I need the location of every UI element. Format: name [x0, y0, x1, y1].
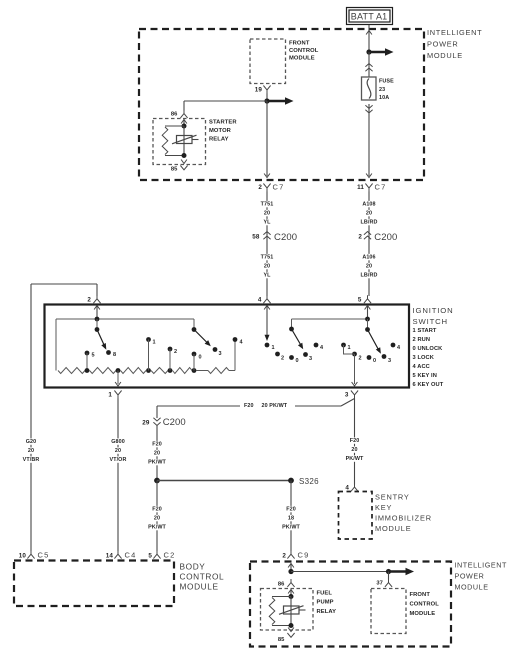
- svg-text:C4: C4: [125, 551, 137, 560]
- svg-text:4 ACC: 4 ACC: [413, 364, 430, 370]
- terminal 2 wafer 4: [352, 352, 362, 362]
- resistor rail segment c: [121, 368, 147, 374]
- arrowhead inside relay pin 86: [181, 120, 187, 124]
- svg-text:3: 3: [309, 356, 312, 362]
- svg-text:11: 11: [357, 184, 364, 191]
- svg-text:LB/RD: LB/RD: [361, 273, 378, 279]
- module box: FRONT CONTROL MODULE (top): [250, 39, 286, 84]
- svg-text:2: 2: [174, 349, 177, 355]
- module box: INTELLIGENT POWER MODULE (bottom): [250, 562, 451, 647]
- svg-text:3 LOCK: 3 LOCK: [413, 355, 435, 361]
- svg-text:RELAY: RELAY: [209, 136, 229, 142]
- svg-text:F20: F20: [244, 403, 254, 409]
- label G20 20 VT/BR: [22, 438, 41, 463]
- battery feed box BATT A1: [347, 8, 393, 25]
- svg-text:20: 20: [264, 211, 270, 217]
- node: fuse feed junction: [366, 49, 371, 54]
- node rail exit pin 1: [116, 368, 121, 373]
- svg-text:PK/WT: PK/WT: [148, 460, 166, 466]
- connector pin 19 of front control module: [255, 86, 271, 94]
- connector C2 pin 5: [148, 551, 175, 560]
- svg-text:1: 1: [348, 345, 351, 351]
- splice S326: [288, 477, 319, 486]
- node: relay coil top: [182, 124, 187, 129]
- svg-text:A108: A108: [362, 202, 375, 208]
- connector C7 pin 11: [357, 183, 386, 192]
- svg-text:37: 37: [376, 581, 383, 587]
- svg-text:0: 0: [373, 358, 376, 364]
- arrowhead into IPM boundary: [366, 31, 372, 35]
- terminal 0 wafer 3: [289, 355, 299, 364]
- label 37 front control module pin: [376, 581, 383, 587]
- svg-text:F20: F20: [152, 507, 162, 513]
- wire branch to front control module pin 37: [388, 572, 390, 580]
- svg-text:KEY: KEY: [375, 503, 392, 512]
- wire splice run to S326: [157, 480, 291, 482]
- svg-text:C5: C5: [38, 551, 50, 560]
- node rail at terminal 5: [85, 368, 90, 373]
- svg-text:6 KEY OUT: 6 KEY OUT: [413, 382, 444, 388]
- svg-text:4: 4: [345, 485, 349, 492]
- switch wafer 1 pivot: [95, 319, 100, 332]
- wire junction to C7 pin 2: [266, 101, 268, 176]
- svg-text:20: 20: [115, 448, 121, 454]
- label IGNITION SWITCH: [413, 306, 454, 326]
- wire A108 segment: [368, 192, 370, 297]
- svg-text:T751: T751: [261, 255, 274, 261]
- bold arrow right (bottom IPM): [389, 568, 415, 575]
- label A108 20 LB/RD (upper): [360, 201, 379, 226]
- svg-text:29: 29: [142, 420, 150, 427]
- switch wafer 1 arm: [97, 330, 106, 350]
- label 85 starter relay pin: [171, 167, 178, 173]
- svg-text:CONTROL: CONTROL: [289, 48, 319, 54]
- svg-text:MODULE: MODULE: [289, 55, 315, 61]
- svg-text:C7: C7: [375, 183, 387, 192]
- node: fuel pump relay coil bottom: [289, 623, 294, 628]
- module box: BODY CONTROL MODULE: [14, 561, 174, 607]
- terminal 5 wafer 1: [85, 351, 95, 371]
- wire F20 horizontal run: [157, 406, 341, 418]
- connector ignition switch pin 4: [258, 295, 271, 303]
- arrowhead at IPM boundary pin 11: [366, 174, 372, 178]
- svg-text:20: 20: [264, 264, 270, 270]
- connector fork pin 85 (below relay): [180, 166, 187, 170]
- arrowhead switch exit pin 1: [115, 382, 121, 386]
- connector fork front control module pin 37: [385, 579, 392, 587]
- module box: FRONT CONTROL MODULE (bottom): [371, 589, 406, 634]
- wire pin 3 branch diagonal: [341, 399, 355, 407]
- connector C200 pin 58: [252, 232, 297, 244]
- svg-text:F20: F20: [152, 442, 162, 448]
- label T751 20 YL (lower): [259, 254, 274, 279]
- starter relay box dashed: [153, 119, 206, 165]
- svg-text:5: 5: [92, 353, 95, 359]
- arrowhead inside switch pin 5: [365, 306, 371, 310]
- label F20 20 PK/WT (upper left): [148, 441, 167, 466]
- node rail at terminal 1: [146, 368, 151, 373]
- arrowhead inside IPM pin 2 C9: [288, 564, 294, 568]
- switch inner top rail: [56, 319, 194, 371]
- svg-text:FRONT: FRONT: [289, 40, 310, 46]
- connector C7 pin 2: [258, 183, 284, 192]
- wire F20 18 segment to C9: [290, 481, 292, 552]
- switch wafer 4 arm: [368, 330, 381, 354]
- svg-text:8: 8: [113, 352, 116, 358]
- arrowhead at IPM boundary pin 2: [264, 174, 270, 178]
- svg-text:1: 1: [108, 392, 112, 399]
- connector chevrons above fuse: [365, 64, 372, 72]
- bold arrow right from pin 19 junction: [267, 97, 294, 104]
- label FRONT CONTROL MODULE (bottom): [410, 592, 440, 617]
- svg-text:86: 86: [278, 582, 285, 588]
- svg-text:20 PK/WT: 20 PK/WT: [262, 403, 288, 409]
- node: F20 junction: [154, 478, 160, 484]
- terminal 1 wafer 4: [341, 343, 351, 351]
- svg-text:2: 2: [282, 552, 286, 559]
- svg-text:2: 2: [358, 233, 362, 240]
- wire pin 4 to terminal 1 wafer 3: [265, 306, 270, 342]
- svg-text:POWER: POWER: [427, 40, 458, 49]
- svg-text:FRONT: FRONT: [410, 592, 431, 598]
- svg-text:3: 3: [388, 358, 391, 364]
- wire pin 3 to sentry key module: [354, 399, 356, 485]
- svg-text:5: 5: [148, 552, 152, 559]
- wire F20 upper segment: [156, 426, 158, 481]
- wire into relay coil top: [183, 120, 185, 127]
- wire fuse to C7 pin 11: [368, 104, 370, 176]
- ignition switch position list: [413, 328, 444, 388]
- connector C9 pin 2: [282, 551, 309, 560]
- terminal 8 wafer 1: [106, 350, 116, 358]
- arrowhead relay pin 85: [181, 160, 187, 164]
- svg-text:2: 2: [87, 297, 91, 304]
- svg-text:A106: A106: [362, 255, 375, 261]
- wire junction to starter relay: [184, 101, 267, 111]
- svg-text:86: 86: [171, 112, 178, 118]
- svg-text:CONTROL: CONTROL: [410, 602, 440, 608]
- connector C4 pin 14: [106, 551, 137, 560]
- wire F20 lower segment to C2: [156, 481, 158, 552]
- connector fork fuel pump relay pin 86: [287, 579, 294, 587]
- svg-text:STARTER: STARTER: [209, 120, 237, 126]
- node rail at terminal 2: [168, 368, 173, 373]
- connector fork fuel pump relay pin 85 (below): [287, 633, 294, 637]
- svg-text:G20: G20: [26, 439, 37, 445]
- arrowhead switch exit pin 3: [352, 382, 358, 386]
- label FUEL PUMP RELAY: [317, 591, 337, 615]
- connector C5 pin 10: [19, 551, 50, 560]
- svg-text:SENTRY: SENTRY: [375, 493, 410, 502]
- svg-text:2: 2: [258, 184, 262, 191]
- svg-text:FUSE: FUSE: [379, 79, 394, 85]
- label G800 20 VT/OR: [109, 438, 128, 463]
- switch wafer 3 pivot rail: [289, 319, 367, 331]
- node: fuel pump relay feed junction: [288, 569, 293, 574]
- ignition switch box: [45, 305, 410, 388]
- node: pin2 rail junction: [95, 317, 100, 322]
- svg-text:MODULE: MODULE: [455, 583, 489, 592]
- arrowhead fuel pump relay pin 85: [288, 628, 294, 632]
- svg-text:FUEL: FUEL: [317, 591, 333, 597]
- terminal 0 wafer 4: [367, 355, 377, 364]
- svg-text:0: 0: [199, 355, 202, 361]
- wire switch exit pin 1: [117, 371, 119, 385]
- terminal 1 wafer 3: [265, 343, 275, 351]
- svg-text:18: 18: [288, 516, 294, 522]
- terminal 4 wafer 2: [233, 337, 244, 345]
- label FRONT CONTROL MODULE (top): [289, 40, 319, 61]
- svg-text:C9: C9: [298, 551, 310, 560]
- resistor rail segment e: [173, 368, 193, 374]
- wire pin 5 into switch: [367, 306, 369, 320]
- arrowhead inside switch pin 2: [94, 306, 100, 310]
- svg-text:1: 1: [272, 345, 275, 351]
- resistor rail segment f: [196, 340, 235, 374]
- svg-text:CONTROL: CONTROL: [180, 572, 225, 582]
- svg-text:F20: F20: [350, 438, 360, 444]
- svg-text:LB/RD: LB/RD: [361, 220, 378, 226]
- bold arrow right from fuse feed node: [369, 48, 394, 55]
- label STARTER MOTOR RELAY: [209, 120, 237, 143]
- svg-text:85: 85: [171, 167, 178, 173]
- wire G20 loop from ignition switch pin 2: [31, 284, 97, 551]
- connector ignition switch pin 2: [87, 295, 100, 303]
- svg-text:F20: F20: [286, 507, 296, 513]
- terminal 3 wafer 3: [303, 352, 312, 362]
- svg-text:3: 3: [345, 392, 349, 399]
- svg-text:MODULE: MODULE: [375, 524, 411, 533]
- svg-text:MODULE: MODULE: [410, 611, 436, 617]
- wire pin 19 to junction: [266, 94, 268, 102]
- svg-text:IGNITION: IGNITION: [413, 306, 454, 315]
- svg-text:20: 20: [351, 447, 357, 453]
- fuel pump relay coil (left zigzag): [269, 597, 291, 626]
- terminal 1 wafer 2: [146, 337, 156, 370]
- terminal 3 wafer 2: [213, 347, 222, 357]
- label INTELLIGENT POWER MODULE (top): [427, 28, 482, 60]
- terminal 0 wafer 2: [192, 352, 202, 371]
- label 86 starter relay pin: [171, 112, 178, 118]
- switch wafer 2 pivot: [192, 319, 197, 332]
- svg-text:MODULE: MODULE: [180, 582, 219, 592]
- svg-text:3: 3: [219, 351, 222, 357]
- svg-text:10A: 10A: [379, 95, 389, 101]
- svg-text:PK/WT: PK/WT: [282, 525, 300, 531]
- svg-text:INTELLIGENT: INTELLIGENT: [427, 28, 482, 37]
- svg-text:85: 85: [278, 637, 285, 643]
- svg-text:10: 10: [19, 552, 27, 559]
- svg-text:T751: T751: [261, 202, 274, 208]
- arrowhead inside fuel pump relay pin 86: [288, 590, 294, 594]
- connector chevrons below fuse: [365, 105, 372, 113]
- label INTELLIGENT POWER MODULE (bottom): [455, 561, 507, 592]
- wire G800 from switch pin 1 to C4: [117, 399, 119, 552]
- svg-text:YL: YL: [263, 220, 271, 226]
- svg-text:2: 2: [359, 356, 362, 362]
- label BODY CONTROL MODULE: [180, 562, 225, 592]
- svg-text:BATT A1: BATT A1: [351, 12, 388, 22]
- connector ignition switch pin 1 (bottom): [108, 391, 121, 399]
- node rail at terminal 0: [192, 368, 197, 373]
- svg-text:20: 20: [366, 264, 372, 270]
- svg-text:C200: C200: [163, 417, 186, 428]
- label T751 20 YL (upper): [259, 201, 274, 226]
- fuel pump relay contact symbol: [279, 597, 306, 626]
- wire feed junction run right: [291, 571, 389, 573]
- connector fork pin 86: [180, 110, 187, 118]
- label SENTRY KEY IMMOBILIZER MODULE: [375, 493, 432, 534]
- svg-text:PUMP: PUMP: [317, 600, 334, 606]
- svg-text:20: 20: [28, 448, 34, 454]
- wire BATT A1 to fuse node: [368, 25, 370, 50]
- svg-text:5: 5: [358, 297, 362, 304]
- resistor rail segment a: [58, 368, 85, 374]
- svg-text:19: 19: [255, 87, 263, 94]
- svg-text:0 UNLOCK: 0 UNLOCK: [413, 346, 444, 352]
- label 86 fuel pump relay pin: [278, 582, 285, 588]
- svg-text:C200: C200: [374, 232, 397, 243]
- label A106 20 LB/RD (lower): [360, 254, 379, 279]
- svg-text:C2: C2: [164, 551, 176, 560]
- switch wafer 4 pivot: [365, 319, 370, 332]
- node: relay coil bottom: [182, 153, 187, 158]
- connector ignition switch pin 3 (bottom): [345, 391, 358, 399]
- svg-text:1: 1: [153, 340, 156, 346]
- starter relay contact symbol: [172, 126, 199, 156]
- svg-text:C7: C7: [273, 183, 285, 192]
- starter relay coil (left zigzag): [162, 126, 184, 156]
- svg-text:2 RUN: 2 RUN: [413, 337, 431, 343]
- terminal 4 wafer 3: [314, 343, 324, 351]
- svg-text:20: 20: [154, 516, 160, 522]
- module box: SENTRY KEY IMMOBILIZER MODULE: [339, 492, 373, 540]
- fuel pump relay box dashed: [261, 589, 314, 631]
- module box: INTELLIGENT POWER MODULE (top): [139, 29, 424, 180]
- svg-text:5 KEY IN: 5 KEY IN: [413, 373, 437, 379]
- svg-text:14: 14: [106, 552, 114, 559]
- label F20 20 PK/WT (horizontal run): [240, 401, 295, 409]
- svg-text:2: 2: [281, 356, 284, 362]
- svg-text:POWER: POWER: [455, 572, 485, 581]
- terminal 3 wafer 4: [382, 354, 392, 364]
- node: starter relay feed junction: [264, 98, 269, 103]
- svg-text:1 START: 1 START: [413, 328, 437, 334]
- svg-text:23: 23: [379, 87, 385, 93]
- label FUSE 23 10A: [379, 79, 394, 102]
- arrowhead inside switch pin 4: [264, 306, 270, 310]
- wire pin 2 into switch: [96, 306, 98, 320]
- svg-text:58: 58: [252, 233, 260, 240]
- svg-text:20: 20: [366, 211, 372, 217]
- resistor rail segment b: [90, 368, 117, 374]
- svg-text:20: 20: [154, 451, 160, 457]
- svg-text:MODULE: MODULE: [427, 51, 463, 60]
- svg-text:YL: YL: [263, 273, 271, 279]
- svg-text:S326: S326: [299, 477, 319, 486]
- svg-text:4: 4: [258, 297, 262, 304]
- resistor rail segment d: [151, 368, 168, 374]
- connector ignition switch pin 5: [358, 295, 371, 303]
- svg-text:RELAY: RELAY: [317, 609, 337, 615]
- svg-text:PK/WT: PK/WT: [346, 456, 364, 462]
- svg-text:INTELLIGENT: INTELLIGENT: [455, 561, 507, 570]
- wire terminal 1 to 2 wafer 4: [344, 345, 355, 354]
- svg-text:G800: G800: [111, 439, 125, 445]
- svg-text:C200: C200: [274, 232, 297, 243]
- svg-text:IMMOBILIZER: IMMOBILIZER: [375, 514, 432, 523]
- label F20 20 PK/WT (lower left): [148, 506, 167, 531]
- wire C9 into fuel pump relay feed: [290, 564, 292, 572]
- wire switch exit pin 3: [354, 354, 356, 384]
- svg-text:VT/OR: VT/OR: [110, 457, 127, 463]
- svg-text:MOTOR: MOTOR: [209, 128, 232, 134]
- svg-text:PK/WT: PK/WT: [148, 525, 166, 531]
- svg-text:BODY: BODY: [180, 562, 206, 572]
- node: fuel pump relay coil top: [289, 594, 294, 599]
- terminal 4 wafer 4: [391, 343, 401, 351]
- connector sentry key pin 4: [345, 484, 358, 492]
- svg-text:SWITCH: SWITCH: [413, 317, 448, 326]
- fuse 23 10A: [362, 77, 377, 100]
- wire T751 upper segment: [266, 192, 268, 297]
- switch wafer 2 arm: [194, 330, 211, 347]
- terminal 2 wafer 2: [168, 347, 178, 371]
- connector C200 pin 29: [142, 417, 186, 428]
- wire into fuel pump relay coil: [290, 590, 292, 597]
- connector C200 pin 2: [358, 232, 397, 244]
- switch wafer 3 arm: [292, 329, 304, 349]
- svg-text:VT/BR: VT/BR: [23, 457, 40, 463]
- label 85 fuel pump relay pin: [278, 637, 285, 643]
- node: front control module branch junction: [386, 569, 391, 574]
- node: pin 5 rail junction: [365, 317, 370, 322]
- label F20 20 PK/WT (sentry key): [345, 437, 364, 462]
- wire junction to fuse: [368, 52, 370, 77]
- svg-text:0: 0: [296, 358, 299, 364]
- terminal 2 wafer 3: [275, 352, 284, 362]
- label F20 18 PK/WT: [282, 506, 301, 531]
